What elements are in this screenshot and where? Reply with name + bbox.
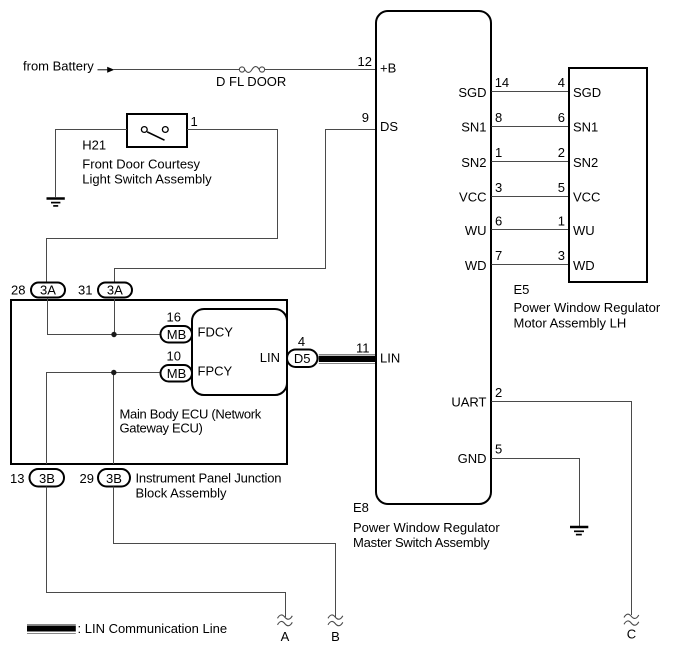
svg-text:D FL DOOR: D FL DOOR: [216, 74, 286, 89]
svg-text:VCC: VCC: [459, 190, 486, 205]
svg-text:3B: 3B: [106, 471, 122, 486]
svg-text:GND: GND: [458, 451, 487, 466]
connector 3B (13): [30, 469, 65, 487]
E8 master switch box: [376, 11, 491, 504]
connector 3A (31): [98, 283, 132, 298]
junction dot FDCY: [111, 332, 116, 337]
svg-text:+B: +B: [380, 61, 396, 76]
svg-text:6: 6: [495, 213, 502, 228]
wire 3B13 to break A: [47, 487, 286, 618]
wire: fuse to E8 pin 12: [265, 69, 376, 71]
svg-text:3A: 3A: [40, 283, 56, 298]
svg-text:13: 13: [10, 471, 24, 486]
fuse D FL DOOR: [239, 67, 264, 73]
svg-text:11: 11: [356, 341, 370, 356]
svg-text:Front Door Courtesy: Front Door Courtesy: [82, 157, 200, 172]
svg-text:DS: DS: [380, 119, 398, 134]
svg-text:6: 6: [558, 110, 565, 125]
svg-text:FDCY: FDCY: [198, 325, 234, 340]
svg-text:WU: WU: [573, 223, 595, 238]
svg-text:A: A: [281, 629, 290, 644]
svg-text:MB: MB: [167, 366, 187, 381]
LIN communication line (thick): [319, 355, 376, 364]
connector MB (10): [161, 365, 193, 382]
svg-text:1: 1: [558, 213, 565, 228]
svg-text:7: 7: [495, 248, 502, 263]
wire UART to break C: [492, 402, 632, 616]
svg-text:1: 1: [191, 114, 198, 129]
svg-text:8: 8: [495, 110, 502, 125]
svg-text:: LIN Communication Line: : LIN Communication Line: [78, 621, 228, 636]
svg-text:LIN: LIN: [380, 351, 400, 366]
svg-text:SN2: SN2: [573, 155, 598, 170]
svg-text:1: 1: [495, 145, 502, 160]
svg-text:Instrument Panel Junction: Instrument Panel Junction: [136, 470, 282, 485]
svg-text:SGD: SGD: [458, 85, 486, 100]
svg-text:3: 3: [558, 248, 565, 263]
connector 3A (28): [31, 283, 65, 298]
svg-text:UART: UART: [451, 395, 486, 410]
svg-text:H21: H21: [82, 138, 106, 153]
svg-text:10: 10: [167, 348, 181, 363]
svg-text:14: 14: [495, 75, 509, 90]
wire WD: [492, 264, 569, 266]
svg-text:C: C: [627, 627, 636, 642]
wire: switch to ground: [56, 130, 128, 198]
junction block box: [11, 300, 287, 464]
svg-text:WD: WD: [465, 258, 487, 273]
svg-text:VCC: VCC: [573, 190, 600, 205]
E5 pin labels: [573, 85, 601, 273]
E5 left pin numbers: [558, 75, 565, 263]
break symbol C: [624, 614, 639, 625]
break symbol B: [328, 615, 343, 626]
switch H21 box: [127, 114, 187, 147]
junction dot FPCY: [111, 370, 116, 375]
connector MB (16): [161, 326, 193, 343]
break symbol A: [278, 615, 293, 626]
svg-text:4: 4: [298, 334, 305, 349]
E8 right pin numbers: [495, 75, 509, 263]
wire: 3A28 to MB16 FDCY: [48, 298, 160, 335]
svg-text:FPCY: FPCY: [198, 364, 233, 379]
svg-text:Power Window Regulator: Power Window Regulator: [353, 520, 500, 535]
svg-text:16: 16: [167, 309, 181, 324]
svg-text:9: 9: [362, 110, 369, 125]
ground (courtesy switch): [47, 199, 65, 206]
wire SGD: [492, 91, 569, 93]
svg-text:SGD: SGD: [573, 85, 601, 100]
wire SN1: [492, 126, 569, 128]
svg-text:3A: 3A: [107, 283, 123, 298]
svg-text:WD: WD: [573, 258, 595, 273]
wire: FPCY junction down to 3B29: [113, 373, 115, 465]
wire: E8 DS pin9 to connector 3A(31): [115, 130, 376, 283]
svg-text:2: 2: [495, 385, 502, 400]
wire: switch pin1 to connector 3A(28): [47, 130, 278, 283]
svg-text:SN2: SN2: [461, 155, 486, 170]
svg-text:2: 2: [558, 145, 565, 160]
wire: FPCY line to 3B13: [47, 373, 160, 465]
wire: 3A31 down to FDCY junction: [114, 298, 116, 335]
svg-text:Gateway ECU): Gateway ECU): [120, 421, 203, 436]
svg-text:from Battery: from Battery: [23, 59, 94, 74]
svg-text:12: 12: [358, 54, 372, 69]
wire: battery to fuse: [114, 69, 240, 71]
svg-text:Block Assembly: Block Assembly: [136, 485, 228, 500]
svg-text:WU: WU: [465, 223, 487, 238]
svg-text:5: 5: [495, 442, 502, 457]
svg-text:5: 5: [558, 180, 565, 195]
E5 motor box: [569, 68, 647, 282]
svg-text:E5: E5: [514, 282, 530, 297]
svg-text:SN1: SN1: [573, 120, 598, 135]
svg-text:LIN: LIN: [260, 350, 280, 365]
svg-text:D5: D5: [294, 351, 311, 366]
svg-text:4: 4: [558, 75, 565, 90]
svg-text:29: 29: [80, 471, 94, 486]
svg-text:B: B: [331, 629, 340, 644]
wire WU: [492, 229, 569, 231]
svg-text:SN1: SN1: [461, 120, 486, 135]
svg-text:Main Body ECU (Network: Main Body ECU (Network: [120, 407, 262, 422]
wire SN2: [492, 161, 569, 163]
svg-text:3: 3: [495, 180, 502, 195]
svg-text:E8: E8: [353, 500, 369, 515]
connector D5: [287, 350, 318, 368]
svg-text:Light Switch Assembly: Light Switch Assembly: [82, 172, 212, 187]
switch contacts: [141, 127, 168, 141]
ground (E8 GND): [570, 527, 588, 535]
svg-text:Master Switch Assembly: Master Switch Assembly: [353, 535, 490, 550]
wire 3B29 to break B: [114, 487, 336, 618]
E8 right-side pin labels: [458, 85, 486, 273]
svg-text:28: 28: [11, 283, 25, 298]
wire VCC: [492, 196, 569, 198]
svg-text:3B: 3B: [39, 471, 55, 486]
connector 3B (29): [98, 469, 130, 487]
svg-text:Power Window Regulator: Power Window Regulator: [514, 300, 661, 315]
wire GND to ground: [492, 459, 580, 527]
main body ECU box: [192, 309, 287, 395]
arrow from battery: [98, 67, 115, 73]
legend: LIN communication line sample: [27, 625, 76, 634]
svg-text:Motor Assembly LH: Motor Assembly LH: [514, 315, 627, 330]
svg-text:MB: MB: [167, 327, 187, 342]
svg-text:31: 31: [78, 283, 92, 298]
